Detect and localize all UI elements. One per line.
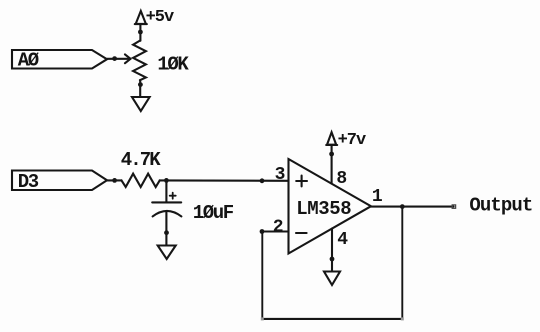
svg-text:LM358: LM358 bbox=[296, 198, 351, 220]
svg-text:Output: Output bbox=[469, 195, 532, 217]
svg-text:D3: D3 bbox=[18, 171, 39, 193]
svg-text:+5v: +5v bbox=[146, 8, 174, 27]
svg-text:1ØuF: 1ØuF bbox=[193, 202, 234, 224]
svg-text:1: 1 bbox=[372, 187, 383, 207]
svg-text:4.7K: 4.7K bbox=[121, 149, 162, 171]
svg-text:AØ: AØ bbox=[18, 50, 39, 72]
svg-text:+7v: +7v bbox=[338, 131, 366, 150]
svg-text:3: 3 bbox=[275, 165, 286, 185]
svg-text:8: 8 bbox=[336, 169, 347, 189]
svg-text:2: 2 bbox=[273, 218, 284, 238]
svg-text:4: 4 bbox=[337, 230, 348, 250]
svg-text:1ØK: 1ØK bbox=[157, 54, 189, 76]
